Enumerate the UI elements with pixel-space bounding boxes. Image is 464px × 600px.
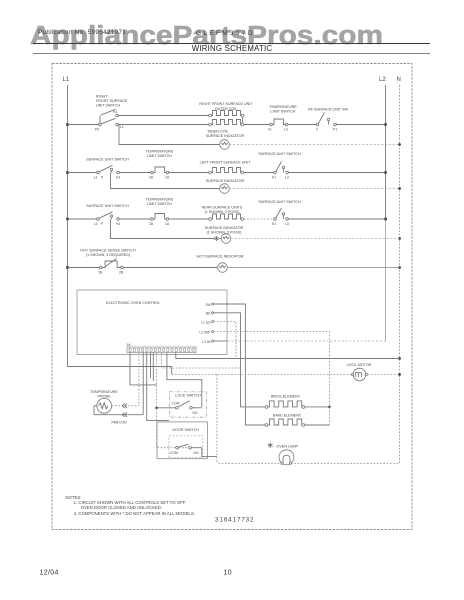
- svg-text:2A: 2A: [149, 176, 154, 180]
- svg-text:BROIL ELEMENT: BROIL ELEMENT: [271, 394, 301, 398]
- svg-text:H1: H1: [113, 110, 117, 114]
- svg-text:TEMPERATURE: TEMPERATURE: [90, 390, 118, 394]
- svg-text:1B: 1B: [98, 271, 103, 275]
- svg-text:SURFACE UNIT SWITCH: SURFACE UNIT SWITCH: [258, 152, 301, 156]
- svg-text:BK: BK: [206, 312, 211, 316]
- svg-text:L2 IN: L2 IN: [202, 340, 211, 344]
- svg-text:SURFACE INDICATOR: SURFACE INDICATOR: [206, 179, 245, 183]
- svg-text:PRB CON: PRB CON: [111, 421, 127, 425]
- svg-text:SURFACE UNIT SWITCH: SURFACE UNIT SWITCH: [86, 157, 129, 161]
- svg-text:P1: P1: [333, 128, 337, 132]
- svg-text:CL: CL: [268, 128, 272, 132]
- svg-text:316417732: 316417732: [215, 517, 254, 524]
- svg-text:1A: 1A: [165, 222, 170, 226]
- svg-text:2B: 2B: [119, 271, 124, 275]
- svg-text:12/04: 12/04: [40, 569, 59, 576]
- svg-text:L3: L3: [285, 176, 289, 180]
- svg-text:L2 IN/F: L2 IN/F: [199, 330, 210, 334]
- svg-text:K1: K1: [272, 176, 276, 180]
- svg-text:UNIT SWITCH: UNIT SWITCH: [96, 104, 120, 108]
- svg-text:N: N: [397, 77, 401, 83]
- svg-text:2A: 2A: [149, 222, 154, 226]
- svg-text:L1: L1: [63, 77, 70, 83]
- svg-text:DOOR SWITCH: DOOR SWITCH: [172, 428, 199, 432]
- svg-text:RIGHT FRONT SURFACE UNIT: RIGHT FRONT SURFACE UNIT: [199, 102, 253, 106]
- svg-text:10: 10: [224, 569, 233, 576]
- svg-text:NO: NO: [193, 411, 198, 415]
- svg-text:Publication No: 5995421071: Publication No: 5995421071: [38, 29, 126, 36]
- svg-text:L1: L1: [120, 125, 124, 129]
- svg-text:OUTER COIL: OUTER COIL: [215, 107, 238, 111]
- svg-text:1A: 1A: [127, 343, 132, 347]
- svg-text:2W: 2W: [205, 303, 211, 307]
- svg-text:P: P: [101, 176, 104, 180]
- svg-text:LEFT FRONT SURFACE UNIT: LEFT FRONT SURFACE UNIT: [200, 161, 251, 165]
- svg-text:RIGHT: RIGHT: [96, 95, 108, 99]
- svg-text:(1 SHOWN, 2 POSS): (1 SHOWN, 2 POSS): [204, 210, 239, 214]
- svg-text:OVEN DOOR CLOSED AND UNLOCKED.: OVEN DOOR CLOSED AND UNLOCKED.: [81, 505, 162, 510]
- svg-text:LIMIT SWITCH: LIMIT SWITCH: [147, 202, 172, 206]
- svg-text:P2: P2: [95, 128, 99, 132]
- svg-text:INNER COIL: INNER COIL: [207, 130, 228, 134]
- svg-text:L1: L1: [94, 176, 98, 180]
- svg-text:RF SURFACE UNIT SW: RF SURFACE UNIT SW: [308, 108, 348, 112]
- svg-text:NO: NO: [194, 451, 199, 455]
- svg-text:(1 SHOWN, 4 REQUIRED): (1 SHOWN, 4 REQUIRED): [86, 253, 130, 257]
- svg-text:GLEFM397D: GLEFM397D: [196, 30, 255, 37]
- svg-text:FRONT SURFACE: FRONT SURFACE: [96, 99, 128, 103]
- svg-text:K1: K1: [272, 222, 276, 226]
- svg-text:H1: H1: [116, 176, 120, 180]
- svg-text:L1 (U): L1 (U): [201, 320, 210, 324]
- svg-text:SURFACE INDICATOR: SURFACE INDICATOR: [206, 134, 245, 138]
- svg-text:COM: COM: [170, 451, 178, 455]
- svg-text:BAKE ELEMENT: BAKE ELEMENT: [273, 414, 302, 418]
- svg-text:P: P: [101, 222, 104, 226]
- svg-text:HOT SURFACE INDICATOR: HOT SURFACE INDICATOR: [196, 255, 243, 259]
- svg-text:ELECTRONIC OVEN CONTROL: ELECTRONIC OVEN CONTROL: [106, 301, 160, 305]
- svg-text:WIRING SCHEMATIC: WIRING SCHEMATIC: [192, 44, 273, 53]
- svg-text:LOCK MOTOR: LOCK MOTOR: [347, 363, 372, 367]
- svg-text:LOCK SWITCH: LOCK SWITCH: [175, 394, 201, 398]
- svg-text:1A: 1A: [165, 176, 170, 180]
- svg-text:REAR SURFACE UNITS: REAR SURFACE UNITS: [202, 206, 243, 210]
- svg-text:OVEN LAMP: OVEN LAMP: [277, 445, 299, 449]
- svg-text:L1: L1: [94, 222, 98, 226]
- svg-text:SURFACE UNIT SWITCH: SURFACE UNIT SWITCH: [258, 200, 301, 204]
- svg-text:L3: L3: [284, 128, 288, 132]
- svg-text:H1: H1: [116, 222, 120, 226]
- svg-text:SURFACE UNIT SWITCH: SURFACE UNIT SWITCH: [86, 204, 129, 208]
- svg-text:SURFACE INDICATOR: SURFACE INDICATOR: [205, 226, 244, 230]
- svg-text:LIMIT SWITCH: LIMIT SWITCH: [271, 109, 296, 113]
- svg-text:L2: L2: [379, 77, 386, 83]
- svg-text:L3: L3: [285, 222, 289, 226]
- svg-text:4. COMPONENTS WITH * DO NOT: 4. COMPONENTS WITH * DO NOT APPEAR IN AL…: [74, 511, 195, 516]
- svg-text:HOT SURFACE SENSE SWITCH: HOT SURFACE SENSE SWITCH: [80, 249, 136, 253]
- svg-text:2: 2: [316, 128, 318, 132]
- svg-text:LIMIT SWITCH: LIMIT SWITCH: [147, 154, 172, 158]
- svg-text:PROBE: PROBE: [98, 394, 111, 398]
- svg-text:COM: COM: [172, 401, 180, 405]
